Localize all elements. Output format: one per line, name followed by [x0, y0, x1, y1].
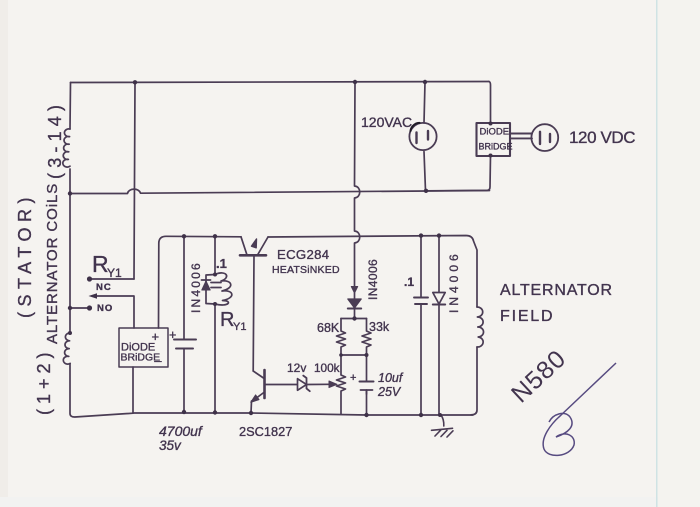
svg-text:HEATSiNKED: HEATSiNKED	[272, 264, 340, 276]
svg-text:+: +	[169, 328, 176, 342]
label 120VAC	[361, 114, 412, 130]
label .1 C2	[216, 256, 227, 271]
svg-text:IN4006: IN4006	[447, 250, 461, 313]
label IN4006 D2	[366, 259, 380, 300]
svg-text:100k: 100k	[314, 361, 340, 375]
label DIODE BRIDGE DB1	[121, 329, 163, 364]
diode bridge DB1 box	[119, 328, 168, 367]
label DIODE BRIDGE DB2	[479, 127, 513, 152]
svg-text:33k: 33k	[369, 320, 390, 334]
svg-text:NC: NC	[96, 282, 112, 293]
label 33K	[369, 320, 390, 334]
label ECG284	[277, 247, 329, 262]
relay Ry1 armature wire	[92, 296, 134, 328]
svg-text:+: +	[350, 372, 356, 384]
label ALTERNATOR FIELD	[500, 282, 613, 325]
diode D1 IN4006 bracket across relay coil	[206, 275, 215, 305]
svg-text:35v: 35v	[159, 438, 182, 453]
svg-text:ALTERNATOR COiLS: ALTERNATOR COiLS	[44, 183, 61, 344]
svg-text:ECG284: ECG284	[277, 247, 329, 262]
label (1+2)	[34, 347, 54, 415]
diode D1 symbol	[202, 280, 211, 290]
transistor Q1 ECG284	[240, 237, 268, 371]
label 10uf	[378, 371, 404, 385]
wire: 120VAC outlet top lead	[424, 82, 425, 123]
ground symbol	[432, 415, 454, 437]
svg-text:Y1: Y1	[233, 321, 246, 333]
label (3-14)	[45, 100, 65, 179]
arrowhead on VAC-hot line	[351, 287, 357, 294]
label 2SC1827	[239, 424, 292, 439]
label IN4006 D3	[447, 250, 461, 313]
svg-text:IN4006: IN4006	[189, 261, 203, 313]
svg-text:Y1: Y1	[107, 266, 122, 280]
relay NC arrowhead (armature)	[89, 293, 98, 299]
wire: ground bus bottom	[133, 413, 473, 415]
capacitor C3 10uf leads and plates	[360, 355, 374, 415]
svg-text:.1: .1	[216, 256, 227, 271]
label 35V	[159, 438, 182, 453]
svg-text:+: +	[152, 329, 160, 344]
alternator field coil	[477, 307, 484, 347]
svg-text:_: _	[154, 349, 163, 363]
wire: vertical from top bus to relay NC	[134, 83, 135, 280]
label (STATOR)	[15, 192, 35, 318]
transistor Q2 2SC1827	[251, 370, 297, 413]
wire: horizontal bus y193 with hop over x134	[70, 189, 490, 193]
wire: relay branch top lead	[214, 236, 216, 274]
svg-text:(1+2): (1+2)	[34, 347, 54, 415]
label 4700uf	[159, 423, 204, 439]
signature N580	[506, 344, 616, 455]
wire: relay branch bottom lead	[214, 304, 216, 413]
wire: DC+ rail from ECG284 to field corner	[268, 236, 477, 308]
svg-text:ALTERNATOR: ALTERNATOR	[500, 282, 613, 299]
diode bridge DB2 box	[477, 123, 511, 156]
wire: DB2 to DC outlet double link	[510, 134, 532, 139]
wire: DC+ rail from bridge to ECG284	[159, 236, 242, 328]
svg-text:.1: .1	[404, 275, 414, 289]
wire: right drop to diode bridge DB2	[489, 82, 491, 123]
wire: left stator rail middle	[69, 169, 71, 333]
relay coil RY1	[215, 273, 232, 305]
svg-text:DiODE: DiODE	[480, 127, 510, 138]
wire: bridge DB1 negative lead to ground bus	[132, 367, 134, 413]
svg-text:(STATOR): (STATOR)	[15, 192, 35, 318]
svg-text:FIELD: FIELD	[500, 308, 554, 325]
svg-text:4700uf: 4700uf	[159, 423, 204, 439]
wire: DB2 bottom lead	[426, 156, 491, 191]
wire: top horizontal bus	[71, 82, 490, 83]
divider top bar	[341, 318, 367, 320]
label ALTERNATOR COILS	[44, 183, 61, 344]
capacitor C1 bottom lead	[183, 349, 185, 414]
svg-text:10uf: 10uf	[378, 371, 404, 385]
label .1 C4	[404, 275, 414, 289]
svg-text:12v: 12v	[287, 361, 306, 375]
svg-text:(3-14): (3-14)	[45, 100, 65, 179]
stator coil lower (1+2)	[63, 333, 70, 364]
svg-text:IN4006: IN4006	[366, 259, 380, 300]
divider mid bar	[341, 354, 367, 356]
resistor R1 68K	[337, 319, 346, 356]
label NO	[97, 303, 113, 314]
wire: left stator rail upper	[69, 83, 72, 130]
label 25V	[377, 385, 402, 399]
outlet J2 120VDC	[531, 124, 558, 151]
resistor R2 33K	[362, 319, 371, 356]
wire: left stator rail lower	[70, 364, 133, 417]
svg-text:BRiDGE: BRiDGE	[479, 142, 513, 152]
label HEATSINKED	[272, 264, 340, 276]
capacitor C1 4700uf top lead	[183, 236, 185, 339]
wire: 120VAC hot vertical with hops at y192 and y237	[355, 82, 360, 288]
wire: 120VAC outlet bottom lead	[424, 152, 426, 191]
label + of C1	[169, 328, 176, 342]
label + of C3	[350, 372, 356, 384]
label 120VDC	[569, 128, 635, 147]
svg-text:68K: 68K	[317, 321, 340, 335]
capacitor C4 .1 branch	[414, 236, 428, 416]
capacitor C1 plates	[174, 340, 196, 349]
outlet J1 120VAC	[409, 123, 436, 150]
relay Ry1 NC contact wire	[90, 278, 134, 280]
label 100K	[314, 361, 340, 375]
label 68K	[317, 321, 340, 335]
diode D2 IN4006 symbol	[348, 293, 361, 318]
svg-text:25V: 25V	[377, 385, 402, 399]
label NC	[96, 282, 112, 293]
svg-text:2SC1827: 2SC1827	[239, 424, 292, 439]
svg-text:120VAC: 120VAC	[361, 114, 412, 130]
diode D3 IN4006 branch	[433, 236, 445, 416]
wire: field right rail to ground bus	[471, 347, 477, 415]
potentiometer R3 100K	[337, 355, 346, 414]
capacitor C2 .1 plates	[211, 283, 221, 288]
zener diode Z1 12V	[298, 376, 332, 392]
svg-text:NO: NO	[97, 303, 113, 314]
label Ry1 relay contacts	[92, 251, 122, 280]
outlet J1 pen overdraw curl	[411, 123, 420, 131]
label 12V	[287, 361, 306, 375]
label Ry1 coil	[220, 309, 246, 333]
svg-text:120 VDC: 120 VDC	[569, 128, 635, 147]
wiper arrowhead into pot	[329, 381, 337, 388]
relay Ry1 NO contact wire	[70, 307, 88, 309]
stator coil upper (3-14)	[63, 129, 70, 167]
label IN4006 D1	[189, 261, 203, 313]
